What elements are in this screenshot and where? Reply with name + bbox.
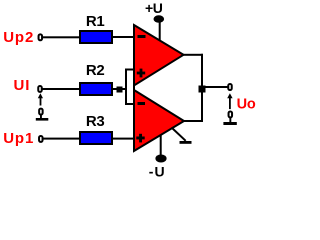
terminal UI — [38, 86, 42, 92]
junction dot J2 — [199, 86, 206, 93]
terminal Uo top — [228, 84, 232, 90]
wire output vertical — [201, 54, 203, 122]
U1 plus sign — [137, 72, 145, 75]
resistor R1 — [80, 31, 112, 43]
svg-text:Up2: Up2 — [3, 29, 34, 46]
U2 minus sign — [138, 102, 146, 105]
svg-text:-U: -U — [149, 164, 166, 180]
resistor R2 — [80, 83, 112, 95]
wire U2 output — [183, 120, 203, 122]
op-amp U2 — [134, 90, 184, 151]
wire left edge bridge — [133, 83, 135, 92]
svg-text:Uo: Uo — [237, 97, 256, 113]
wire R2 to branch — [113, 88, 127, 90]
wire branch to U2 minus input — [125, 103, 135, 105]
wire R3 to opamp U2 plus input — [113, 138, 135, 140]
terminal Up2 — [39, 34, 43, 40]
wire +U to U1 — [159, 21, 161, 41]
wire R1 to opamp U1 minus input — [113, 36, 135, 38]
output arrow — [229, 98, 231, 110]
svg-text:R2: R2 — [86, 62, 105, 79]
UI reference bar — [36, 118, 49, 121]
Uo reference stub — [229, 118, 231, 122]
U2 plus sign — [136, 137, 144, 140]
terminal Up1 — [39, 136, 43, 142]
supply terminal +U — [154, 15, 165, 23]
svg-text:+U: +U — [145, 0, 163, 16]
wire UI to R2 — [42, 88, 80, 90]
svg-text:Up1: Up1 — [3, 130, 34, 147]
wire branch to U1 plus input — [125, 69, 135, 71]
UI reference terminal — [39, 109, 43, 115]
ground — [172, 128, 186, 141]
junction dot J1 — [117, 87, 123, 93]
wire U1 output — [182, 54, 203, 56]
op-amp U1 — [134, 25, 184, 86]
wire to Uo terminal — [203, 86, 228, 88]
UI source arrow — [40, 98, 42, 106]
wire -U to U2 — [160, 135, 162, 155]
supply terminal -U — [155, 155, 166, 163]
svg-text:R1: R1 — [86, 13, 105, 30]
resistor R3 — [80, 132, 112, 144]
terminal Uo bottom — [229, 111, 233, 117]
U1 minus sign — [138, 35, 146, 38]
UI reference stub — [40, 115, 42, 119]
wire Up2 to R1 — [43, 36, 80, 38]
wire branch vertical — [125, 69, 127, 106]
Uo reference bar — [223, 122, 236, 125]
wire Up1 to R3 — [43, 138, 80, 140]
svg-text:UI: UI — [14, 77, 31, 94]
svg-text:R3: R3 — [86, 113, 105, 130]
